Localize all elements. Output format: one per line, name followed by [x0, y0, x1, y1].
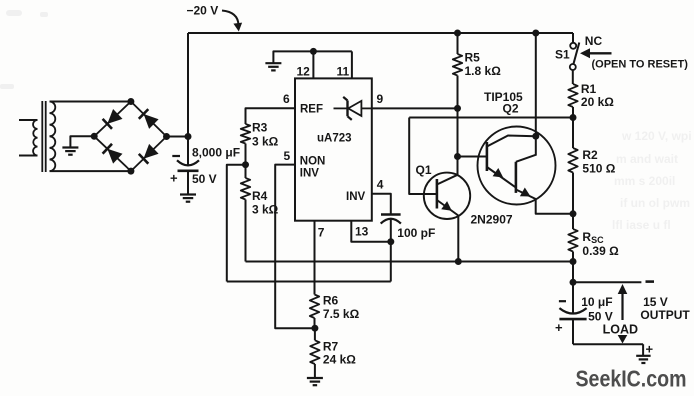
wire R1/R2 divider to Q1 base: [409, 117, 573, 119]
junction R3/R4: [242, 161, 249, 168]
svg-text:uA723: uA723: [317, 133, 352, 145]
svg-text:+: +: [646, 342, 654, 357]
wire secondary bottom to bridge AC bottom: [50, 170, 131, 172]
transformer T1 secondary winding: [50, 102, 56, 172]
svg-text:R4: R4: [252, 189, 268, 203]
wire to Q2 base: [458, 156, 488, 158]
pin 4 INV wire to C2: [372, 194, 391, 215]
label C3 minus: [559, 300, 566, 302]
load arrows: [618, 284, 628, 294]
resistor R2: [568, 148, 577, 173]
wire output minus terminal: [573, 281, 641, 283]
label C1 minus: [172, 155, 180, 157]
wire C3 to bottom line: [572, 319, 574, 344]
ground (C1): [180, 195, 196, 202]
transistor Q2 TIP105: [478, 127, 556, 205]
wire R3/R4 junction to INV bus: [227, 165, 246, 282]
transformer core: [41, 101, 43, 172]
wire R2 to Q2 emitter junction: [572, 173, 574, 214]
svg-text:4: 4: [377, 177, 384, 191]
svg-text:2N2907: 2N2907: [471, 213, 513, 227]
svg-text:20 kΩ: 20 kΩ: [581, 95, 614, 109]
capacitor C3 plus plate: [559, 318, 586, 321]
capacitor C2 100 pF top plate: [381, 213, 401, 216]
svg-text:NON: NON: [300, 155, 326, 167]
diode CR3 (bridge bottom-left): [103, 144, 123, 164]
wire C2 to pin 13 junction: [390, 219, 392, 242]
junction RSC/sense bus: [570, 258, 577, 265]
wire R7 to ground: [314, 364, 316, 378]
capacitor C2 100 pF curved plate: [381, 219, 401, 224]
svg-text:INV: INV: [300, 167, 320, 179]
svg-text:10 μF: 10 μF: [581, 295, 612, 309]
wire output node to C3: [572, 282, 574, 313]
wire R6 to junction: [314, 318, 316, 328]
svg-text:−20 V: −20 V: [187, 4, 219, 18]
wire S1 to R1: [572, 70, 574, 84]
wire R3 to junction: [245, 144, 247, 165]
svg-text:R2: R2: [582, 148, 598, 162]
resistor R5: [453, 54, 462, 76]
wire R4 to sense line: [245, 200, 247, 262]
resistor RSC: [568, 229, 577, 252]
wire current-sense bus: [246, 261, 574, 263]
Q2 emitter wire: [536, 199, 573, 214]
Q2 collector wire from rail: [535, 33, 537, 136]
svg-text:12: 12: [297, 65, 311, 79]
wire junction to R2: [572, 118, 574, 149]
svg-text:R7: R7: [323, 339, 339, 353]
wire C1 to ground: [187, 171, 189, 194]
junction Q2 collectors: [532, 133, 539, 140]
capacitor C1 plus plate: [178, 170, 199, 173]
wire to output ground: [642, 344, 644, 355]
wire node down to C1: [187, 137, 189, 166]
wire bridge left vertex to ground: [70, 136, 94, 147]
pin 9 wire to R5/Q1 node: [372, 107, 458, 109]
svg-text:R5: R5: [465, 51, 481, 65]
Q1 collector wire: [457, 216, 459, 262]
resistor R3: [241, 124, 250, 144]
wire ground to pin 12 node: [273, 51, 313, 62]
wire node up to top rail: [187, 33, 189, 137]
wire R1 to junction: [572, 107, 574, 118]
junction R6/R7: [311, 325, 318, 332]
diode CR2 (bridge top-right): [139, 109, 159, 129]
wire RSC to sense bus: [572, 252, 574, 262]
label output minus: [646, 280, 655, 283]
svg-text:if un ol pwm: if un ol pwm: [620, 196, 690, 210]
svg-text:100 pF: 100 pF: [397, 226, 435, 240]
ground (R7): [307, 378, 323, 385]
svg-text:3 kΩ: 3 kΩ: [252, 134, 279, 148]
wire output plus/ground line: [573, 343, 643, 345]
svg-text:INV: INV: [346, 191, 366, 203]
wire pin9 node to Q1 emitter: [457, 108, 459, 175]
junction pin 12 node: [310, 48, 317, 55]
svg-text:11: 11: [337, 65, 350, 79]
wire top rail -20V: [188, 32, 573, 34]
svg-text:LOAD: LOAD: [603, 323, 638, 337]
wire INV feedback bus: [227, 281, 391, 283]
svg-text:SeekIC.com: SeekIC.com: [576, 366, 687, 392]
ground (uA723 pin 12): [265, 63, 281, 70]
svg-text:NC: NC: [585, 34, 603, 48]
svg-text:7: 7: [318, 226, 325, 240]
junction bridge right vertex: [163, 133, 170, 140]
svg-text:24 kΩ: 24 kΩ: [323, 353, 356, 367]
diode CR4 (bridge bottom-right): [139, 144, 159, 164]
pin 11 lead: [351, 51, 353, 78]
svg-text:OUTPUT: OUTPUT: [640, 308, 690, 322]
switch S1: [570, 43, 580, 71]
junction bridge left vertex: [91, 133, 98, 140]
arrow pointer -20V: [222, 11, 239, 26]
node -20V unregulated: [185, 133, 192, 140]
svg-text:8,000 μF: 8,000 μF: [192, 145, 240, 159]
pin 6 REF wire to R3: [246, 108, 296, 124]
transistor Q1 2N2907: [424, 173, 470, 219]
svg-text:7.5 kΩ: 7.5 kΩ: [323, 307, 360, 321]
junction R1/R2: [570, 114, 577, 121]
svg-text:mm s 200il: mm s 200il: [614, 174, 675, 188]
svg-text:50 V: 50 V: [192, 172, 217, 186]
pin 5 NON INV wire to R6/R7 junction: [275, 165, 315, 329]
svg-text:510 Ω: 510 Ω: [582, 161, 615, 175]
svg-text:5: 5: [284, 149, 291, 163]
svg-text:50 V: 50 V: [588, 309, 613, 323]
junction bridge bottom vertex: [127, 168, 134, 175]
junction R5 top on rail: [454, 30, 461, 37]
svg-text:Q1: Q1: [416, 163, 432, 177]
junction Q1 collector on sense bus: [455, 258, 462, 265]
svg-text:0.39 Ω: 0.39 Ω: [582, 244, 619, 258]
wire rail to R5: [457, 33, 459, 54]
svg-text:S1: S1: [555, 48, 570, 62]
wire rail to S1: [572, 33, 574, 43]
wire to output node: [572, 262, 574, 283]
op-amp regulator U1 uA723 box: [295, 78, 372, 220]
resistor R7: [310, 340, 319, 364]
resistor R6: [310, 295, 319, 319]
junction output node: [570, 279, 577, 286]
junction rail/Q2 collector: [532, 30, 539, 37]
pin 7 lead down to R6: [314, 221, 316, 295]
capacitor C3 10 uF curved minus plate: [559, 308, 586, 313]
svg-text:R6: R6: [323, 294, 339, 308]
svg-text:+: +: [170, 171, 178, 186]
junction pin13/C2: [387, 238, 394, 245]
diode CR1 (bridge top-left): [103, 109, 123, 129]
junction bridge top vertex: [127, 98, 134, 105]
svg-text:R3: R3: [252, 121, 268, 135]
junction pin9/R5: [454, 105, 461, 112]
svg-text:RSC: RSC: [582, 230, 604, 245]
ground (output): [636, 356, 650, 363]
transformer T1 primary winding: [19, 119, 38, 121]
resistor R1: [568, 84, 577, 107]
wire pin 12 to pin 11: [313, 50, 352, 52]
wire junction to RSC: [572, 214, 574, 229]
svg-text:6: 6: [283, 92, 290, 106]
wire junction to R4: [245, 165, 247, 178]
capacitor C1 8,000 uF curved minus plate: [177, 160, 199, 165]
svg-text:w 120 V, wpi: w 120 V, wpi: [621, 129, 692, 143]
junction Q2 base tap: [454, 153, 461, 160]
wire R5 to pin 9 junction: [457, 76, 459, 109]
junction Q2 emitter/R2/RSC: [570, 210, 577, 217]
arrow open-to-reset: [588, 52, 612, 54]
wire junction down to INV bus: [390, 242, 392, 282]
svg-text:Q2: Q2: [503, 102, 519, 116]
svg-text:+: +: [555, 320, 563, 335]
svg-text:1.8 kΩ: 1.8 kΩ: [465, 64, 502, 78]
zener diode (internal Vref): [334, 97, 372, 120]
svg-text:9: 9: [377, 92, 384, 106]
ground (bridge): [62, 148, 78, 155]
svg-text:13: 13: [355, 224, 369, 238]
wire down to Q1 base: [409, 118, 437, 195]
wire bridge output to node: [167, 136, 189, 138]
bridge rectifier frame: [94, 102, 166, 172]
svg-text:REF: REF: [300, 103, 323, 115]
wire junction to R7: [314, 328, 316, 340]
svg-text:(OPEN TO RESET): (OPEN TO RESET): [592, 58, 689, 70]
pin 12 lead: [312, 51, 314, 78]
svg-text:m and wait: m and wait: [616, 152, 678, 166]
pin 13 wire: [351, 221, 391, 242]
wire secondary top to bridge AC top: [50, 101, 131, 103]
svg-text:lfl iase u fl: lfl iase u fl: [612, 218, 671, 232]
